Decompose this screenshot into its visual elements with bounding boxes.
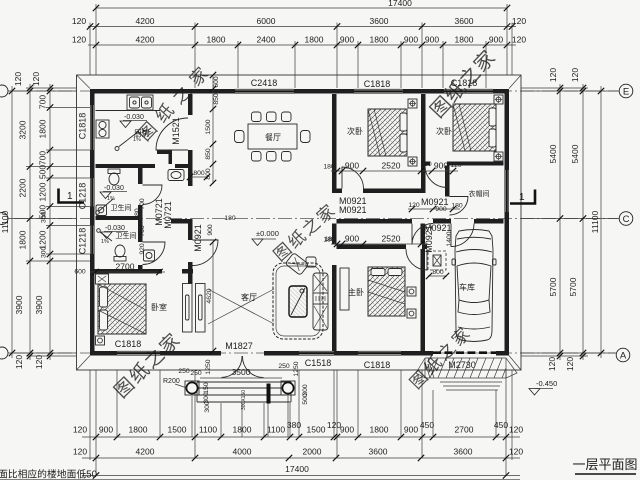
living-master wall: [332, 224, 337, 245]
tv cabinets divider: [183, 284, 193, 333]
bottom dim line B: [82, 457, 520, 459]
svg-text:120: 120: [13, 72, 23, 86]
svg-text:900: 900: [404, 35, 418, 45]
hall washbasin: [168, 170, 184, 181]
svg-text:300: 300: [41, 211, 48, 223]
svg-text:-0.030: -0.030: [124, 114, 144, 121]
dining chair right: [301, 131, 311, 143]
svg-text:850: 850: [205, 148, 212, 160]
svg-text:面比相应的楼地面低50: 面比相应的楼地面低50: [0, 468, 98, 480]
living side table top: [306, 257, 316, 267]
svg-text:120: 120: [31, 72, 41, 86]
svg-text:900: 900: [434, 161, 448, 171]
bedroom wardrobe: [96, 274, 109, 284]
svg-text:R200: R200: [163, 378, 180, 385]
bed divider wall: [421, 94, 426, 189]
svg-text:M1827: M1827: [225, 341, 253, 351]
bed2 door M0921: [425, 166, 447, 188]
bottom extension lines: [90, 370, 512, 476]
bath east wall: [138, 168, 143, 184]
svg-text:4200: 4200: [136, 447, 155, 457]
right exterior wall: [505, 89, 510, 170]
porch column right: [281, 381, 295, 395]
left dim col middle: [29, 84, 31, 360]
svg-text:1: 1: [67, 191, 73, 202]
garage equip dim 800: [428, 275, 447, 277]
garage car: [452, 230, 496, 342]
svg-text:3600: 3600: [369, 447, 388, 457]
svg-text:车库: 车库: [459, 282, 475, 292]
svg-text:450: 450: [494, 420, 508, 430]
svg-text:600: 600: [74, 269, 86, 276]
svg-text:C1818: C1818: [364, 360, 391, 370]
svg-text:1100: 1100: [199, 425, 218, 435]
right dim col 3 : 11100: [600, 86, 602, 358]
svg-text:1800: 1800: [233, 425, 252, 435]
svg-text:120: 120: [547, 357, 557, 371]
svg-text:850: 850: [213, 93, 220, 105]
svg-text:5400: 5400: [570, 144, 580, 163]
cloak door: [450, 197, 469, 216]
hall-bedroom wall: [188, 168, 193, 186]
bath1 drain/arrow: [96, 211, 100, 215]
svg-text:C1218: C1218: [78, 228, 88, 255]
right dim col 2: [582, 84, 584, 360]
svg-text:5400: 5400: [548, 144, 558, 163]
svg-text:1800: 1800: [370, 425, 389, 435]
top exterior wall: [90, 89, 235, 94]
svg-text:900: 900: [345, 234, 359, 244]
hall basin dim 800: [189, 176, 208, 178]
corridor short wall: [171, 219, 193, 224]
svg-text:120: 120: [548, 68, 558, 82]
svg-text:17400: 17400: [388, 0, 412, 8]
cloak west wall: [445, 166, 450, 197]
svg-text:120: 120: [72, 16, 86, 26]
svg-text:900: 900: [345, 161, 359, 171]
axis circle E: [619, 84, 633, 98]
svg-text:1200: 1200: [38, 230, 48, 249]
svg-text:C1518: C1518: [305, 358, 332, 368]
svg-text:120: 120: [512, 16, 526, 26]
svg-text:M0921: M0921: [339, 205, 367, 215]
garage dashed equipment box: [428, 251, 446, 270]
living rug (scalloped): [273, 263, 323, 339]
svg-text:4000: 4000: [233, 447, 252, 457]
svg-text:C1818: C1818: [115, 339, 142, 349]
bedroom side table: [96, 336, 105, 345]
svg-text:客厅: 客厅: [241, 292, 257, 302]
svg-text:900: 900: [404, 425, 418, 435]
kitchen bottom wall: [96, 164, 156, 168]
bath2 drain: [97, 229, 101, 233]
bottom dim line C: [82, 475, 520, 477]
bath1 door M0721: [143, 185, 163, 205]
axis circle A: [616, 348, 630, 362]
window C1818 top2: [444, 89, 493, 93]
svg-text:C1818: C1818: [78, 113, 88, 140]
svg-text:餐厅: 餐厅: [265, 133, 281, 142]
axis circle C: [619, 212, 633, 226]
svg-text:120: 120: [570, 68, 580, 82]
svg-text:3200: 3200: [18, 120, 28, 139]
svg-text:2520: 2520: [382, 234, 401, 244]
svg-text:卫生间: 卫生间: [116, 231, 137, 240]
svg-text:1800: 1800: [455, 35, 474, 45]
svg-text:-0.030: -0.030: [104, 185, 124, 192]
axis A: [14, 352, 615, 354]
kitchen door M1521: [156, 118, 188, 150]
window C1218 bath1: [90, 178, 94, 207]
svg-text:1100: 1100: [267, 425, 286, 435]
bottom exterior wall: [90, 351, 117, 356]
svg-text:3600: 3600: [370, 16, 389, 26]
bath2 door M0721: [143, 242, 166, 265]
dining table: [248, 124, 297, 149]
master top dim: [331, 243, 428, 245]
svg-text:1500: 1500: [307, 425, 326, 435]
svg-text:-0.030: -0.030: [105, 225, 125, 232]
bed2 bottom wall: [426, 162, 431, 166]
kitchen stub wall: [157, 151, 172, 155]
bath1 corner basin: [96, 205, 107, 216]
living 4620 dim: [212, 242, 214, 351]
master door M0921: [406, 249, 427, 270]
svg-text:180: 180: [451, 203, 463, 210]
svg-text:主卧: 主卧: [348, 287, 364, 297]
svg-text:11100: 11100: [0, 211, 10, 234]
svg-text:4620: 4620: [206, 288, 213, 303]
svg-text:150: 150: [203, 382, 210, 394]
section mark right: [510, 190, 535, 204]
bedrooms bottom wall: [337, 189, 343, 194]
svg-text:6000: 6000: [257, 16, 276, 26]
svg-text:250: 250: [190, 370, 202, 377]
svg-text:2700: 2700: [455, 425, 474, 435]
svg-text:C1218: C1218: [78, 183, 88, 210]
bed1 bottom dim: [331, 170, 458, 172]
svg-text:次卧: 次卧: [436, 126, 452, 136]
svg-text:1250: 1250: [293, 361, 300, 376]
window C1518 bottom: [299, 351, 334, 355]
svg-text:M1521: M1521: [171, 117, 181, 145]
eave corner miters: [77, 75, 91, 89]
interior dims: [212, 75, 214, 184]
bath2 toilet: [115, 245, 125, 257]
svg-text:120: 120: [72, 35, 86, 45]
bedroom door M0921: [193, 240, 219, 266]
garage door M2730 dashed: [433, 351, 496, 354]
svg-text:900: 900: [207, 224, 214, 236]
kitchen sink: [127, 95, 153, 110]
svg-text:M0721: M0721: [163, 201, 173, 229]
elevation marks: [252, 229, 279, 246]
svg-text:450: 450: [420, 420, 434, 430]
left dim col outer 11100: [11, 86, 13, 358]
svg-text:1800: 1800: [207, 35, 226, 45]
svg-text:1250: 1250: [205, 359, 212, 374]
svg-text:800: 800: [193, 170, 205, 177]
top dim extension lines: [90, 4, 512, 88]
svg-text:500: 500: [38, 165, 48, 179]
svg-text:900: 900: [425, 35, 439, 45]
svg-text:3600: 3600: [454, 447, 473, 457]
bottom border line: [0, 478, 520, 480]
svg-text:3500: 3500: [232, 367, 251, 377]
svg-text:17400: 17400: [285, 464, 309, 474]
svg-text:一层平面图: 一层平面图: [572, 457, 637, 472]
dining chair left: [235, 131, 245, 143]
svg-text:4200: 4200: [136, 35, 155, 45]
vestibule door M0921: [412, 224, 433, 245]
svg-text:1800: 1800: [305, 35, 324, 45]
svg-text:1500: 1500: [205, 119, 212, 134]
2700 dim bedroom top: [90, 271, 165, 273]
garage door M0921: [451, 224, 474, 247]
svg-text:C1818: C1818: [364, 79, 391, 89]
master wardrobe left: [340, 268, 349, 310]
master bed: [368, 267, 405, 316]
window C1818 left kitchen: [90, 105, 94, 150]
svg-text:900: 900: [489, 35, 503, 45]
svg-text:300: 300: [204, 401, 211, 413]
svg-text:1800: 1800: [129, 425, 148, 435]
svg-text:120: 120: [509, 447, 523, 457]
bath1 toilet: [108, 169, 120, 174]
svg-text:180: 180: [323, 164, 335, 171]
svg-text:700: 700: [38, 151, 48, 165]
svg-text:5700: 5700: [548, 277, 558, 296]
svg-text:120: 120: [34, 355, 44, 369]
window C1218 bath2: [90, 226, 94, 255]
master east / garage west wall: [421, 224, 426, 245]
eave outline: [77, 75, 522, 370]
axis C: [14, 218, 618, 220]
svg-text:衣帽间: 衣帽间: [469, 189, 490, 198]
svg-text:800: 800: [432, 269, 444, 276]
top dim line 1 : 17400: [96, 7, 507, 9]
master side tables: [407, 287, 416, 296]
svg-text:E: E: [623, 87, 629, 98]
svg-text:1800: 1800: [38, 119, 48, 138]
svg-text:700: 700: [139, 198, 146, 210]
bedroom top wall: [90, 269, 162, 274]
svg-text:11100: 11100: [590, 211, 600, 234]
kitchen stove: [96, 120, 109, 138]
cross lines living: [208, 289, 274, 324]
svg-text:1800: 1800: [370, 35, 389, 45]
porch section bar: [267, 384, 271, 404]
svg-text:-0.450: -0.450: [536, 379, 557, 388]
svg-text:C2418: C2418: [251, 78, 278, 88]
svg-text:2520: 2520: [382, 161, 401, 171]
svg-text:300: 300: [41, 246, 48, 258]
dining chairs top: [252, 112, 262, 122]
porch column left: [185, 381, 199, 395]
bed2 (次卧 right): [453, 104, 496, 151]
dining chairs bottom: [252, 152, 262, 162]
master top wall: [337, 245, 407, 250]
bath2 corner basin: [144, 250, 155, 261]
bedroom(卧室) bed: [98, 284, 146, 334]
window C2418: [235, 89, 294, 93]
right extension lines: [521, 88, 619, 356]
lobby dims: [408, 208, 460, 210]
svg-text:300X150: 300X150: [241, 390, 247, 410]
left exterior wall: [90, 89, 95, 105]
svg-text:500: 500: [302, 393, 309, 405]
svg-text:2200: 2200: [18, 178, 28, 197]
svg-text:C: C: [623, 214, 630, 225]
svg-text:120: 120: [73, 447, 87, 457]
svg-text:1200: 1200: [38, 182, 48, 201]
right wall window: [505, 170, 509, 212]
svg-text:M0921: M0921: [424, 225, 434, 253]
kitchen counter: [96, 110, 161, 112]
svg-text:120: 120: [73, 425, 87, 435]
svg-text:1%: 1%: [107, 196, 115, 202]
top dim line 3: [88, 44, 516, 46]
svg-text:250: 250: [178, 368, 190, 375]
svg-text:1500: 1500: [168, 425, 187, 435]
porch platform steps: [197, 382, 291, 402]
living sofa right: [313, 273, 328, 330]
right dim col 1: [559, 84, 561, 360]
svg-text:2700: 2700: [116, 262, 135, 272]
svg-text:1%: 1%: [101, 239, 109, 245]
svg-text:1400: 1400: [446, 231, 453, 246]
svg-text:900: 900: [99, 425, 113, 435]
svg-text:1: 1: [519, 192, 525, 203]
bath divider wall: [96, 216, 139, 220]
living tea table: [289, 286, 307, 317]
dining-bed1 wall: [332, 94, 337, 193]
axis E: [14, 90, 618, 92]
svg-text:380: 380: [287, 420, 301, 430]
svg-text:M0921: M0921: [193, 224, 203, 252]
svg-text:700: 700: [38, 95, 48, 109]
svg-text:900: 900: [340, 425, 354, 435]
svg-text:900: 900: [435, 206, 447, 213]
svg-text:920: 920: [139, 243, 146, 255]
svg-text:卧室: 卧室: [151, 302, 167, 312]
svg-text:3900: 3900: [14, 295, 24, 314]
svg-text:2000: 2000: [303, 447, 322, 457]
svg-text:120: 120: [512, 35, 526, 45]
svg-text:4200: 4200: [136, 16, 155, 26]
window C1818 master bottom: [358, 351, 401, 355]
bed1 side tables: [408, 99, 417, 108]
svg-text:700: 700: [139, 225, 146, 237]
svg-text:180: 180: [134, 208, 141, 220]
svg-text:120: 120: [408, 202, 420, 209]
svg-text:3600: 3600: [455, 16, 474, 26]
window C1818 top1: [354, 89, 403, 93]
svg-text:±0.000: ±0.000: [256, 229, 279, 238]
svg-text:1800: 1800: [18, 230, 28, 249]
bed1 door M0921: [342, 167, 364, 189]
kitchen right wall: [188, 94, 193, 115]
svg-text:120: 120: [14, 355, 24, 369]
svg-text:900: 900: [340, 35, 354, 45]
bottom dim line A: [82, 436, 520, 438]
kitchen floor drain + slope arrow: [115, 147, 119, 151]
svg-text:180: 180: [420, 161, 432, 168]
living armchair top: [285, 253, 309, 276]
left partial axis circles: [0, 85, 8, 97]
bed1 (次卧 left): [368, 109, 407, 156]
svg-text:3900: 3900: [34, 295, 44, 314]
svg-text:600: 600: [213, 76, 220, 88]
svg-text:5700: 5700: [568, 277, 578, 296]
section mark left: [59, 189, 85, 203]
svg-text:120: 120: [450, 162, 462, 169]
svg-text:120: 120: [565, 357, 575, 371]
entry double door M1827: [222, 356, 243, 378]
garage ramp hatch: [416, 358, 517, 390]
svg-text:卫生间: 卫生间: [111, 203, 132, 212]
svg-text:250: 250: [278, 363, 290, 370]
left extension lines: [8, 88, 90, 356]
window C1818 bedroom bottom: [117, 351, 160, 355]
svg-text:次卧: 次卧: [347, 126, 363, 136]
svg-text:2400: 2400: [257, 35, 276, 45]
top dim line 2: [88, 26, 516, 28]
svg-text:180: 180: [324, 236, 336, 243]
corridor bottom wall: [337, 219, 413, 224]
svg-text:180: 180: [224, 215, 236, 222]
bed2 side table: [494, 95, 503, 104]
svg-text:120: 120: [509, 425, 523, 435]
svg-text:A: A: [620, 351, 627, 362]
left dim col inner: [49, 84, 51, 360]
